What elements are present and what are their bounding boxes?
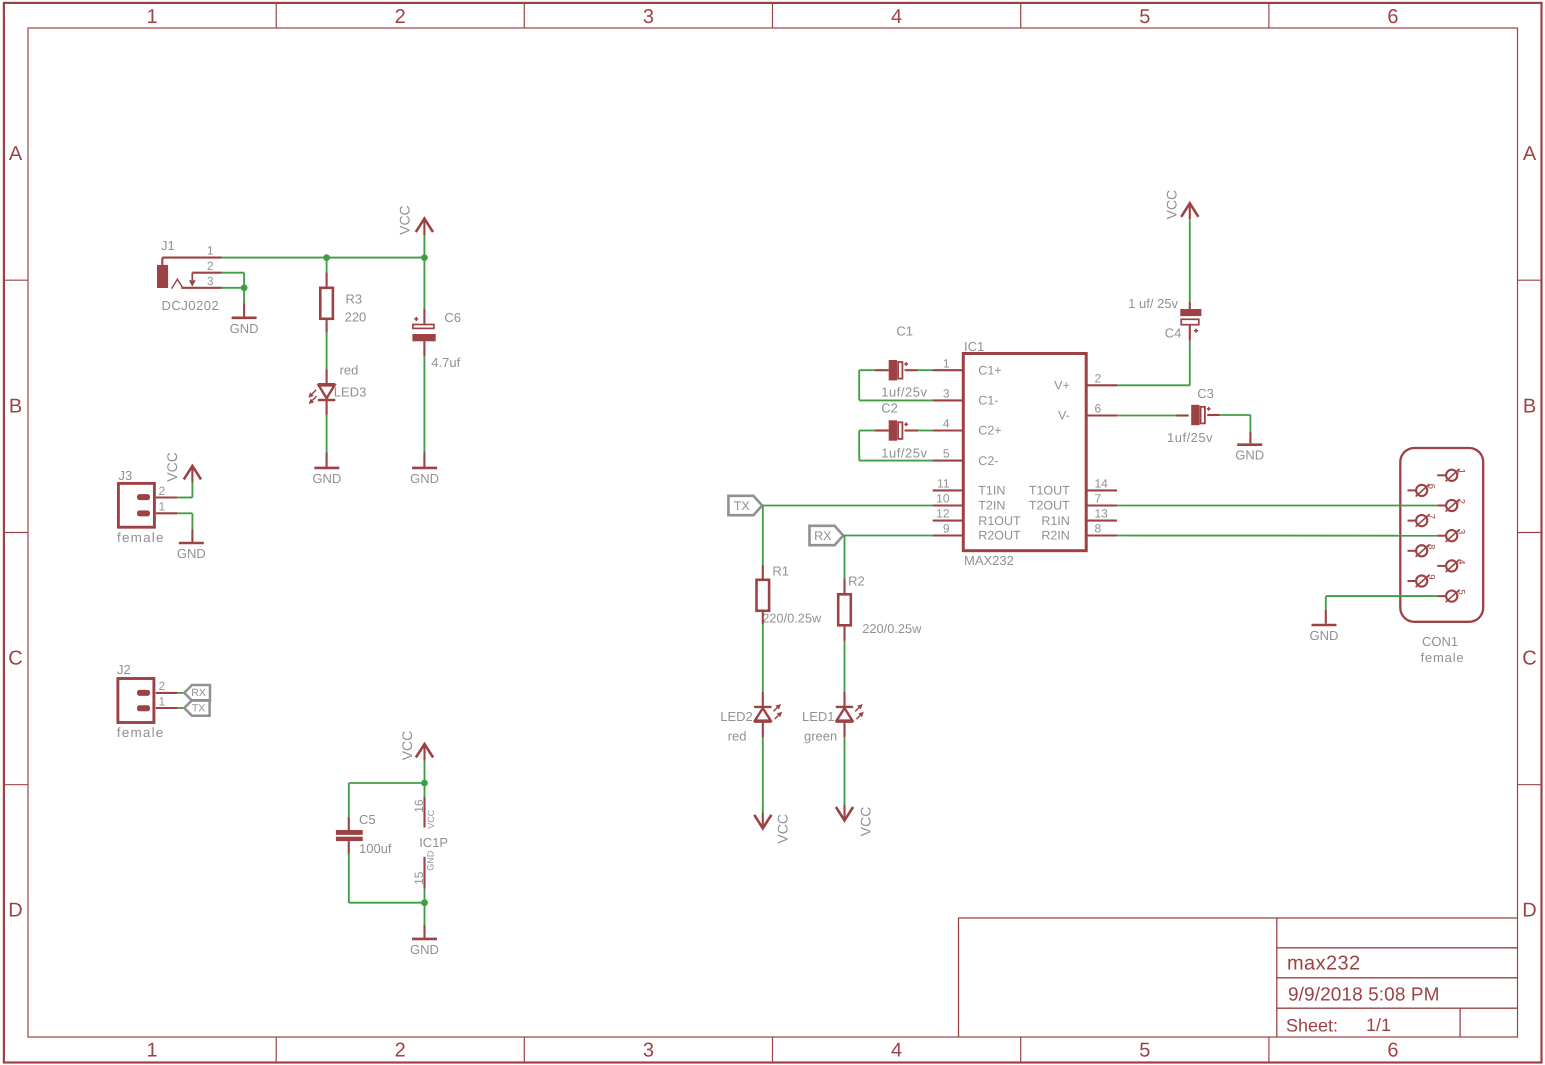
svg-text:6: 6 xyxy=(1387,6,1398,28)
wire J1 pin3 to GND net xyxy=(222,287,244,289)
IC1 pin 1 C1+ xyxy=(933,356,1002,377)
resistor R1 xyxy=(757,580,770,611)
VCC label at C6 branch xyxy=(397,205,413,235)
junction VCC bus at C6 xyxy=(421,254,428,261)
title block drawing name text xyxy=(1287,953,1361,975)
wire J1 pin1 to VCC bus xyxy=(222,257,425,259)
capacitor C6 polarized xyxy=(412,317,435,342)
svg-text:J2: J2 xyxy=(117,662,131,677)
LED2 color label red xyxy=(728,728,747,743)
J2 value label female xyxy=(117,725,165,740)
R2 name label xyxy=(848,573,865,588)
IC1 pin 12 R1OUT xyxy=(933,507,1021,528)
svg-text:13: 13 xyxy=(1095,507,1109,521)
svg-text:VCC: VCC xyxy=(426,809,436,829)
junction IC1P VCC node xyxy=(421,780,428,787)
junction VCC bus at R3 xyxy=(323,254,330,261)
svg-text:GND: GND xyxy=(1235,448,1264,463)
svg-text:4: 4 xyxy=(943,417,950,431)
svg-text:D: D xyxy=(8,900,22,922)
wire LED2 to VCC xyxy=(762,722,764,814)
svg-text:4: 4 xyxy=(891,6,902,28)
svg-text:female: female xyxy=(1421,650,1465,665)
svg-text:7: 7 xyxy=(1426,514,1437,519)
wire R3 column top xyxy=(326,258,328,288)
wire C1 right to IC1 pin1 xyxy=(905,369,933,371)
title block sheet text xyxy=(1286,1015,1391,1036)
svg-text:4: 4 xyxy=(1456,559,1467,564)
wire J1 pin2 to GND net xyxy=(222,273,244,288)
LED3 color label red xyxy=(340,362,359,377)
svg-text:female: female xyxy=(117,725,165,740)
svg-text:2: 2 xyxy=(1456,499,1467,504)
capacitor C1 polarized xyxy=(889,360,908,380)
C5 name label xyxy=(359,812,376,827)
C3 name label xyxy=(1197,386,1214,401)
LED2 name label xyxy=(720,709,753,724)
R3 value label xyxy=(345,310,367,325)
svg-text:VCC: VCC xyxy=(1163,190,1179,220)
ground symbol at C6 xyxy=(410,468,439,486)
LED1 name label xyxy=(802,709,835,724)
R3 name label xyxy=(346,292,363,307)
svg-text:5: 5 xyxy=(1139,6,1150,28)
svg-text:LED2: LED2 xyxy=(720,709,753,724)
wire VCC to IC1P junction xyxy=(424,761,426,784)
C5 value label xyxy=(359,841,392,856)
frame column numbers bottom xyxy=(147,1039,1399,1061)
LED LED1 xyxy=(836,704,864,722)
C6 name label xyxy=(444,310,461,325)
resistor R3 xyxy=(320,288,333,319)
svg-text:2: 2 xyxy=(207,259,214,273)
IC1 pin 7 T2OUT xyxy=(1029,492,1117,513)
svg-text:1: 1 xyxy=(943,356,950,370)
IC1 pin 2 V+ xyxy=(1054,371,1117,392)
svg-text:T1IN: T1IN xyxy=(978,484,1005,498)
wire RX down to R2 xyxy=(844,536,846,595)
IC1P pin 16 VCC xyxy=(412,783,436,829)
svg-text:3: 3 xyxy=(643,1039,654,1061)
svg-text:9: 9 xyxy=(943,522,950,536)
svg-text:R2OUT: R2OUT xyxy=(978,529,1021,543)
svg-text:C6: C6 xyxy=(444,310,461,325)
frame row letters left xyxy=(8,143,23,922)
CON1 name label xyxy=(1422,634,1458,649)
svg-text:TX: TX xyxy=(734,499,751,513)
IC1 pin 11 T1IN xyxy=(933,477,1006,498)
ground symbol at CON1 xyxy=(1310,625,1339,643)
svg-text:9/9/2018 5:08 PM: 9/9/2018 5:08 PM xyxy=(1288,985,1440,1006)
IC1 pin 8 R2IN xyxy=(1041,522,1117,543)
IC1 pin 3 C1- xyxy=(933,387,999,408)
svg-text:6: 6 xyxy=(1426,484,1437,489)
svg-text:2: 2 xyxy=(1095,371,1102,385)
wire J2 pin1 to TX flag xyxy=(177,707,184,709)
wire C4 to IC1 V+ xyxy=(1117,325,1190,386)
svg-text:red: red xyxy=(728,728,747,743)
svg-text:VCC: VCC xyxy=(857,807,873,837)
C2 name label xyxy=(881,400,898,415)
wire TX down to R1 xyxy=(762,506,764,580)
IC1 pin 5 C2- xyxy=(933,447,999,468)
svg-text:R2IN: R2IN xyxy=(1041,529,1069,543)
svg-text:1: 1 xyxy=(159,694,166,708)
svg-text:8: 8 xyxy=(1426,544,1437,549)
svg-text:IC1: IC1 xyxy=(964,339,984,354)
svg-text:C: C xyxy=(8,648,22,670)
svg-text:1: 1 xyxy=(1456,469,1467,474)
svg-text:A: A xyxy=(9,143,23,165)
svg-text:A: A xyxy=(1523,143,1537,165)
J1 pin 1 xyxy=(162,244,222,258)
svg-text:7: 7 xyxy=(1095,492,1102,506)
svg-text:4.7uf: 4.7uf xyxy=(431,355,460,370)
IC1 pin 9 R2OUT xyxy=(933,522,1021,543)
svg-text:C1: C1 xyxy=(896,324,913,339)
svg-text:9: 9 xyxy=(1426,574,1437,579)
wire junction to C5 top xyxy=(349,783,425,830)
svg-text:R1IN: R1IN xyxy=(1041,514,1069,528)
wire junction to GND symbol xyxy=(424,903,426,938)
wire C6 to GND xyxy=(423,341,425,467)
net flag TX xyxy=(728,496,762,515)
LED LED3 xyxy=(308,384,335,404)
wire R1 to LED2 xyxy=(762,611,764,707)
connector CON1 body xyxy=(1400,448,1483,622)
VCC label above IC1P xyxy=(399,731,415,761)
svg-text:VCC: VCC xyxy=(164,452,180,482)
svg-text:4: 4 xyxy=(891,1039,902,1061)
svg-text:C1+: C1+ xyxy=(978,363,1001,377)
svg-text:VCC: VCC xyxy=(397,205,413,235)
op-amp IC1 MAX232 body xyxy=(963,354,1086,551)
wire R2 to LED1 xyxy=(843,625,845,707)
J3 value label female xyxy=(117,530,165,545)
svg-text:IC1P: IC1P xyxy=(419,835,448,850)
J1 pin 2 xyxy=(192,259,222,273)
svg-text:CON1: CON1 xyxy=(1422,634,1458,649)
resistor R2 xyxy=(838,594,851,625)
R2 value label xyxy=(862,621,922,636)
svg-text:6: 6 xyxy=(1387,1039,1398,1061)
svg-text:C2: C2 xyxy=(881,400,898,415)
wire VCC to C4 xyxy=(1189,220,1191,309)
svg-text:Sheet:: Sheet: xyxy=(1286,1016,1338,1036)
svg-text:T2OUT: T2OUT xyxy=(1029,499,1070,513)
power symbol VCC below LED2 xyxy=(754,813,771,829)
svg-text:15: 15 xyxy=(412,871,426,885)
J3 pin 2 xyxy=(156,484,177,498)
wire J3 pin2 to VCC xyxy=(177,482,192,497)
connector J1 body xyxy=(157,258,196,289)
capacitor C5 xyxy=(336,830,363,841)
capacitor C3 polarized xyxy=(1191,405,1210,425)
ground symbol at C3 xyxy=(1235,445,1264,463)
connector J2 body xyxy=(118,679,154,723)
wire TX to IC1 T2IN xyxy=(762,505,933,507)
svg-text:C3: C3 xyxy=(1197,386,1214,401)
net flag RX xyxy=(810,526,844,545)
power symbol VCC above IC1P xyxy=(416,744,433,761)
wire IC1 T2OUT to CON1 pin2 xyxy=(1117,505,1437,507)
svg-text:R1OUT: R1OUT xyxy=(978,514,1021,528)
svg-text:11: 11 xyxy=(937,477,950,491)
svg-text:GND: GND xyxy=(1310,628,1339,643)
VCC label below LED1 xyxy=(857,807,873,837)
wire C5 bottom to GND junction xyxy=(349,841,425,903)
wire LED1 to VCC xyxy=(843,722,845,806)
frame column ticks xyxy=(276,4,1269,1062)
capacitor C2 polarized xyxy=(889,420,908,440)
svg-text:220: 220 xyxy=(345,310,367,325)
J2 pin 2 xyxy=(156,679,177,693)
svg-text:J1: J1 xyxy=(161,238,175,253)
VCC label below LED2 xyxy=(775,814,791,844)
CON1 pin 1 xyxy=(1437,469,1467,482)
svg-text:R2: R2 xyxy=(848,573,865,588)
ground symbol at LED3 xyxy=(312,468,341,486)
svg-text:1: 1 xyxy=(159,500,166,514)
svg-text:100uf: 100uf xyxy=(359,841,392,856)
svg-text:GND: GND xyxy=(410,942,439,957)
svg-text:1 uf/ 25v: 1 uf/ 25v xyxy=(1128,296,1178,311)
C4 value label xyxy=(1128,296,1178,311)
CON1 pin 5 xyxy=(1437,589,1467,602)
IC1 pin 4 C2+ xyxy=(933,417,1002,438)
CON1 pin 6 xyxy=(1408,484,1437,497)
wire junction down to GND symbol xyxy=(243,288,245,317)
J1 value label DCJ0202 xyxy=(162,298,220,313)
wire IC1 V- to C3 xyxy=(1117,415,1189,417)
svg-text:2: 2 xyxy=(159,679,166,693)
CON1 pin 2 xyxy=(1437,499,1467,512)
VCC label at J3 xyxy=(164,452,180,482)
LED LED2 xyxy=(754,704,782,722)
svg-text:max232: max232 xyxy=(1287,953,1361,975)
svg-text:R1: R1 xyxy=(772,564,789,579)
svg-text:5: 5 xyxy=(1456,589,1467,594)
svg-text:2: 2 xyxy=(159,484,166,498)
svg-text:1: 1 xyxy=(147,1039,158,1061)
svg-text:RX: RX xyxy=(814,529,832,543)
svg-text:GND: GND xyxy=(177,546,206,561)
svg-text:B: B xyxy=(1523,395,1536,417)
CON1 pin 7 xyxy=(1408,514,1437,527)
C6 value label xyxy=(431,355,460,370)
wire C3 to GND xyxy=(1207,415,1250,443)
frame row ticks xyxy=(4,280,1542,785)
svg-text:B: B xyxy=(9,395,22,417)
svg-text:green: green xyxy=(804,728,837,743)
svg-text:R3: R3 xyxy=(346,292,363,307)
R1 name label xyxy=(772,564,789,579)
power symbol VCC at J3 xyxy=(184,466,201,483)
svg-text:T1OUT: T1OUT xyxy=(1029,484,1070,498)
wire LED3 to GND xyxy=(326,400,328,467)
svg-text:GND: GND xyxy=(425,850,435,871)
svg-text:MAX232: MAX232 xyxy=(964,553,1014,568)
C4 name label xyxy=(1165,326,1182,341)
wire C2 left loop to IC1 pin5 xyxy=(859,431,932,461)
connector J3 body xyxy=(118,483,154,527)
wire bus down to C6 xyxy=(423,258,425,324)
svg-text:220/0.25w: 220/0.25w xyxy=(762,610,822,625)
C1 name label xyxy=(896,324,913,339)
ground symbol at J1 xyxy=(230,318,259,336)
title block date text xyxy=(1288,985,1440,1006)
svg-text:1/1: 1/1 xyxy=(1366,1015,1391,1035)
C1 value label xyxy=(881,384,927,399)
svg-text:3: 3 xyxy=(943,387,950,401)
svg-text:C4: C4 xyxy=(1165,326,1182,341)
frame column numbers top xyxy=(147,6,1399,28)
IC1 pin 10 T2IN xyxy=(933,492,1006,513)
VCC label above C4 xyxy=(1163,190,1179,220)
svg-text:red: red xyxy=(340,362,359,377)
svg-text:female: female xyxy=(117,530,165,545)
C2 value label xyxy=(881,445,927,460)
R1 value label xyxy=(762,610,822,625)
wire J2 pin2 to RX flag xyxy=(177,692,184,694)
svg-text:T2IN: T2IN xyxy=(978,499,1005,513)
svg-text:TX: TX xyxy=(192,702,205,714)
svg-text:14: 14 xyxy=(1095,477,1109,491)
svg-text:1: 1 xyxy=(207,244,214,258)
svg-text:1: 1 xyxy=(147,6,158,28)
svg-text:J3: J3 xyxy=(119,468,133,483)
svg-text:16: 16 xyxy=(412,799,426,813)
svg-text:5: 5 xyxy=(943,447,950,461)
wire VCC arrow to bus xyxy=(423,235,425,258)
svg-text:1uf/25v: 1uf/25v xyxy=(881,445,927,460)
wire IC1 R2IN to CON1 pin3 xyxy=(1117,535,1437,537)
J3 pin 1 xyxy=(156,500,177,514)
svg-text:C2-: C2- xyxy=(978,454,998,468)
svg-text:5: 5 xyxy=(1139,1039,1150,1061)
J1 name label xyxy=(161,238,175,253)
power symbol VCC below LED1 xyxy=(836,805,853,821)
title block outline xyxy=(959,918,1518,1037)
svg-text:D: D xyxy=(1522,900,1536,922)
svg-text:DCJ0202: DCJ0202 xyxy=(162,298,220,313)
J3 name label xyxy=(119,468,133,483)
svg-text:RX: RX xyxy=(191,687,206,699)
LED3 name label xyxy=(334,384,367,399)
wire C1 left loop to IC1 pin3 xyxy=(859,370,932,400)
ground symbol at J3 xyxy=(177,543,206,561)
svg-text:VCC: VCC xyxy=(399,731,415,761)
svg-text:LED1: LED1 xyxy=(802,709,835,724)
svg-text:V-: V- xyxy=(1058,409,1070,423)
wire J3 pin1 to GND xyxy=(177,513,192,542)
svg-text:3: 3 xyxy=(207,274,214,288)
J1 pin 3 xyxy=(181,274,222,288)
net flag RX at J2 xyxy=(184,685,210,701)
svg-text:C: C xyxy=(1522,648,1536,670)
svg-text:LED3: LED3 xyxy=(334,384,367,399)
ground symbol below IC1P xyxy=(410,939,439,957)
IC1 pin 14 T1OUT xyxy=(1029,477,1117,498)
CON1 pin 8 xyxy=(1408,544,1437,557)
IC1 pin 13 R1IN xyxy=(1041,507,1117,528)
C3 value label xyxy=(1167,430,1213,445)
J2 pin 1 xyxy=(156,694,177,708)
svg-text:C5: C5 xyxy=(359,812,376,827)
svg-text:12: 12 xyxy=(936,507,950,521)
wire CON1 pin5 to GND xyxy=(1326,596,1437,624)
IC1 name label xyxy=(964,339,984,354)
svg-text:10: 10 xyxy=(936,492,950,506)
svg-text:C2+: C2+ xyxy=(978,424,1001,438)
junction J1 ground node xyxy=(241,284,248,291)
frame row letters right xyxy=(1522,143,1537,922)
svg-text:1uf/25v: 1uf/25v xyxy=(881,384,927,399)
net flag TX at J2 xyxy=(184,700,209,716)
CON1 value label female xyxy=(1421,650,1465,665)
svg-text:2: 2 xyxy=(395,6,406,28)
svg-text:6: 6 xyxy=(1095,402,1102,416)
svg-text:GND: GND xyxy=(410,471,439,486)
svg-text:GND: GND xyxy=(230,321,259,336)
IC1P name label xyxy=(419,835,448,850)
svg-text:1uf/25v: 1uf/25v xyxy=(1167,430,1213,445)
wire R3 to LED3 xyxy=(326,319,328,384)
svg-text:8: 8 xyxy=(1095,522,1102,536)
wire C2 right to IC1 pin4 xyxy=(905,429,933,431)
LED1 color label green xyxy=(804,728,837,743)
CON1 pin 9 xyxy=(1408,574,1437,587)
IC1 value label MAX232 xyxy=(964,553,1014,568)
IC1P pin 15 GND xyxy=(412,850,436,903)
CON1 pin 3 xyxy=(1437,529,1467,542)
svg-text:GND: GND xyxy=(312,471,341,486)
junction IC1P GND node xyxy=(421,899,428,906)
svg-text:2: 2 xyxy=(395,1039,406,1061)
svg-text:V+: V+ xyxy=(1054,379,1070,393)
svg-text:VCC: VCC xyxy=(775,814,791,844)
svg-text:220/0.25w: 220/0.25w xyxy=(862,621,922,636)
power symbol VCC above C4 xyxy=(1181,203,1198,220)
wire RX to IC1 R2OUT xyxy=(843,535,932,537)
capacitor C4 polarized xyxy=(1180,309,1201,333)
J2 name label xyxy=(117,662,131,677)
svg-text:3: 3 xyxy=(643,6,654,28)
IC1 pin 6 V- xyxy=(1058,402,1117,423)
svg-text:3: 3 xyxy=(1456,529,1467,534)
power symbol VCC above C6 xyxy=(416,219,433,236)
CON1 pin 4 xyxy=(1437,559,1467,572)
svg-text:C1-: C1- xyxy=(978,394,998,408)
